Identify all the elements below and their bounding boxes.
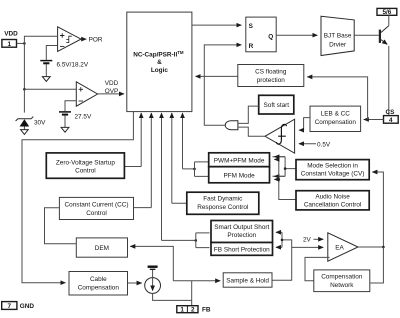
svg-text:protection: protection bbox=[257, 77, 286, 84]
svg-text:BJT Base: BJT Base bbox=[324, 33, 352, 40]
wire VDD rail up to POR input bbox=[24, 36, 57, 43]
comparator POR bbox=[58, 27, 81, 52]
svg-text:7: 7 bbox=[8, 303, 12, 310]
pin 5/6 box bbox=[377, 8, 397, 15]
pin CS box (4) bbox=[384, 116, 399, 124]
wire bracket to mode boxes bbox=[195, 162, 209, 177]
node VDD rail junction mid bbox=[23, 88, 26, 91]
transistor Q1 BJT bbox=[388, 15, 390, 25]
box Sample & Hold bbox=[223, 273, 272, 287]
svg-text:S: S bbox=[249, 23, 254, 30]
svg-text:27.5V: 27.5V bbox=[75, 114, 92, 121]
box Zero-Voltage Startup Control bbox=[46, 153, 124, 178]
svg-text:Zero-Voltage Startup: Zero-Voltage Startup bbox=[56, 159, 115, 166]
wire FB line to DEM bbox=[130, 246, 173, 280]
svg-text:VDD: VDD bbox=[105, 80, 119, 87]
wire EA output line to Mode Selection bbox=[372, 172, 383, 247]
wire CS pin to LEB box bbox=[364, 119, 384, 121]
block NC-Cap/PSR-II & Logic bbox=[127, 12, 192, 112]
wire feedback to EA input bbox=[292, 246, 324, 248]
wire Soft start to AND gate bbox=[239, 106, 259, 123]
box Audio Noise Cancellation Control bbox=[296, 191, 369, 210]
svg-text:POR: POR bbox=[89, 37, 103, 44]
node short protection junction bbox=[195, 239, 198, 242]
wire CC Control to DEM bbox=[45, 208, 76, 244]
comparator VDD OVP bbox=[76, 82, 97, 106]
svg-text:GND: GND bbox=[20, 303, 35, 310]
wire emitter down to CS pin bbox=[388, 46, 390, 116]
battery reference 27.5V bbox=[59, 111, 71, 113]
wire Q output to driver bbox=[276, 34, 317, 36]
svg-text:5/6: 5/6 bbox=[382, 9, 391, 16]
latch U-SR bbox=[246, 17, 276, 52]
wire VDD pin to rail bbox=[17, 42, 25, 44]
wire logic block to Zero-Voltage Startup bbox=[125, 113, 141, 167]
wire Audio box to mode boxes bbox=[279, 159, 296, 199]
wire driver output to transistor base bbox=[354, 34, 379, 36]
box Mode Selection in Constant Voltage (CV) bbox=[296, 160, 369, 180]
wire LEB output to comparator bbox=[299, 118, 310, 131]
svg-text:1: 1 bbox=[8, 41, 12, 48]
svg-text:Smart Output Short: Smart Output Short bbox=[214, 224, 269, 231]
ground under 27.5V battery bbox=[61, 127, 69, 132]
svg-text:Constant Current (CC): Constant Current (CC) bbox=[65, 202, 129, 209]
ground under zener bbox=[21, 130, 29, 135]
op-amp EA bbox=[328, 233, 358, 261]
svg-text:Q: Q bbox=[268, 33, 273, 40]
svg-text:FB Short Protection: FB Short Protection bbox=[214, 247, 270, 254]
svg-text:Constant Voltage (CV): Constant Voltage (CV) bbox=[301, 171, 365, 178]
wire logic block to short protection bbox=[162, 113, 196, 240]
wire CS junction up to CS floating protection bbox=[307, 77, 367, 120]
svg-text:6.5V/18.2V: 6.5V/18.2V bbox=[57, 62, 89, 69]
svg-text:Sample & Hold: Sample & Hold bbox=[226, 278, 269, 285]
node EA output junction bbox=[382, 246, 385, 249]
wire cable compensation to current source bbox=[128, 282, 142, 284]
wire AND output to latch R bbox=[204, 45, 241, 125]
svg-text:DEM: DEM bbox=[95, 245, 109, 252]
wire POR minus input to reference bbox=[46, 46, 57, 60]
wire current source to FB node bbox=[153, 293, 192, 300]
box PWM+PFM Mode bbox=[209, 153, 270, 167]
wire junction down to zener bbox=[23, 89, 25, 112]
svg-text:VDD: VDD bbox=[4, 31, 18, 38]
svg-text:FB: FB bbox=[202, 306, 211, 313]
box Smart Output Short Protection bbox=[211, 221, 273, 243]
svg-text:Audio Noise: Audio Noise bbox=[315, 193, 350, 200]
wire FB line to Sample & Hold bbox=[173, 280, 220, 282]
svg-text:EA: EA bbox=[335, 245, 344, 252]
node CS junction bbox=[366, 118, 369, 121]
node VDD rail junction top bbox=[23, 42, 26, 45]
pin VDD box (1) bbox=[2, 40, 17, 48]
svg-text:PFM Mode: PFM Mode bbox=[223, 173, 255, 180]
box Cable Compensation bbox=[69, 272, 128, 296]
svg-text:0.5V: 0.5V bbox=[317, 141, 331, 148]
svg-text:OVP: OVP bbox=[105, 88, 119, 95]
svg-text:2: 2 bbox=[191, 307, 195, 314]
wire bracket to protection boxes bbox=[196, 233, 210, 248]
wire S: logic block to latch bbox=[192, 24, 241, 26]
box Soft start bbox=[259, 95, 294, 114]
gate AND bbox=[225, 121, 238, 130]
svg-text:Compensation: Compensation bbox=[78, 284, 120, 291]
svg-text:2V: 2V bbox=[303, 237, 312, 244]
wire logic block to CC Control bbox=[134, 113, 151, 208]
svg-text:Response Control: Response Control bbox=[197, 204, 248, 211]
svg-text:Cancellation Control: Cancellation Control bbox=[304, 202, 362, 209]
current source I1 bbox=[145, 278, 161, 294]
svg-text:Network: Network bbox=[330, 282, 354, 289]
svg-text:Drvier: Drvier bbox=[329, 42, 347, 49]
wire POR output bbox=[81, 38, 86, 40]
wire logic block to Fast Dynamic bbox=[172, 113, 187, 203]
box PFM Mode bbox=[209, 167, 270, 183]
svg-text:&: & bbox=[157, 59, 162, 66]
supply rail bars above current source bbox=[148, 266, 158, 268]
wire Mode Selection to mode boxes bbox=[273, 157, 297, 177]
pin FB box (1 2) bbox=[177, 306, 198, 313]
wire OVP output to logic block bbox=[98, 93, 124, 95]
svg-text:Fast Dynamic: Fast Dynamic bbox=[203, 196, 243, 203]
svg-text:Logic: Logic bbox=[151, 67, 168, 74]
wire compensation network to EA bbox=[305, 257, 330, 280]
wire logic block to mode boxes bbox=[183, 113, 195, 169]
svg-text:Soft start: Soft start bbox=[264, 102, 290, 109]
svg-text:30V: 30V bbox=[34, 120, 46, 127]
node mode junction bbox=[193, 168, 196, 171]
pin GND box (7) bbox=[2, 302, 17, 310]
zener diode 30V bbox=[16, 117, 34, 121]
svg-text:Protection: Protection bbox=[227, 232, 256, 239]
svg-text:R: R bbox=[249, 43, 254, 50]
node audio junction bbox=[278, 178, 281, 181]
svg-text:PWM+PFM Mode: PWM+PFM Mode bbox=[214, 157, 265, 164]
svg-text:Compensation: Compensation bbox=[315, 119, 357, 126]
wire EA output to compensation network bbox=[370, 247, 383, 283]
svg-text:CS floating: CS floating bbox=[255, 69, 287, 76]
svg-text:1: 1 bbox=[180, 307, 184, 314]
wire VDD rail down bbox=[23, 43, 25, 89]
node mode select junction bbox=[284, 167, 287, 170]
battery reference 6.5V/18.2V bbox=[40, 60, 52, 62]
wire logic block to cable compensation rail bbox=[22, 112, 133, 283]
wire OVP minus input to reference bbox=[65, 101, 76, 111]
box Constant Current (CC) Control bbox=[59, 197, 133, 219]
box CS floating protection bbox=[238, 65, 304, 87]
box Compensation Network bbox=[314, 270, 370, 292]
svg-text:4: 4 bbox=[389, 117, 393, 124]
driver U-BJT Base Driver bbox=[321, 16, 354, 55]
node feedback junction bbox=[281, 239, 284, 242]
box Fast Dynamic Response Control bbox=[187, 192, 259, 214]
svg-text:NC-Cap/PSR-IITM: NC-Cap/PSR-IITM bbox=[133, 50, 184, 59]
wire FB pin up to sample line bbox=[191, 281, 193, 306]
box FB Short Protection bbox=[211, 243, 273, 256]
wire 2V to EA bbox=[314, 238, 324, 240]
box LEB & CC Compensation bbox=[310, 106, 361, 131]
wire Sample&Hold output to protection bracket bbox=[273, 240, 292, 280]
svg-text:Cable: Cable bbox=[90, 276, 107, 283]
wire comparator output to AND gate bbox=[239, 127, 266, 136]
ground under 6.5V battery bbox=[42, 77, 50, 82]
wire CS floating protection to logic block bbox=[196, 75, 238, 77]
svg-text:Control: Control bbox=[86, 210, 107, 217]
svg-text:LEB & CC: LEB & CC bbox=[321, 111, 351, 118]
wire junction to OVP input bbox=[24, 88, 76, 90]
comparator current sense (integral) bbox=[265, 119, 295, 153]
svg-text:Mode Selection in: Mode Selection in bbox=[307, 162, 358, 169]
wire EA output bbox=[358, 246, 383, 248]
svg-text:Control: Control bbox=[75, 168, 96, 175]
wire 0.5V to comparator bbox=[299, 143, 316, 145]
svg-text:Compensation: Compensation bbox=[321, 274, 363, 281]
box DEM bbox=[76, 238, 127, 257]
